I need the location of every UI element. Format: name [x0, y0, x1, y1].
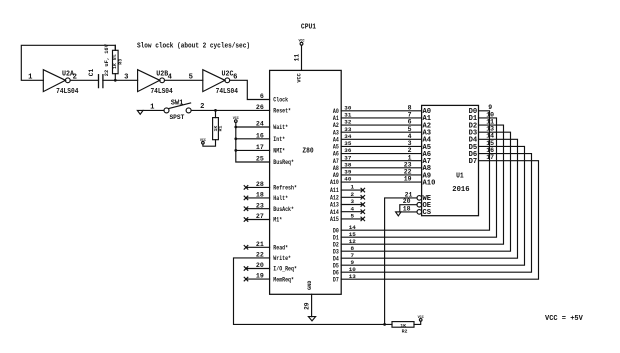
wire A6 net (Z80 pin 36 to 2016 pin 2)	[341, 153, 421, 155]
inverter U2B	[138, 70, 160, 92]
svg-text:A8: A8	[333, 165, 339, 172]
resistor R2	[392, 322, 414, 328]
svg-text:R2: R2	[402, 328, 408, 334]
svg-text:D6: D6	[333, 269, 339, 276]
svg-text:CS: CS	[423, 209, 432, 217]
svg-text:D5: D5	[333, 262, 339, 269]
svg-text:9: 9	[351, 259, 355, 266]
wire D0 net (2016 pin 9 to Z80 pin 14)	[341, 111, 489, 230]
wire A1 net (Z80 pin 31 to 2016 pin 7)	[341, 117, 421, 119]
svg-text:Int*: Int*	[273, 136, 285, 143]
wire D1 net (2016 pin 10 to Z80 pin 15)	[341, 118, 496, 237]
svg-text:14: 14	[349, 224, 357, 231]
wire A9 net (Z80 pin 39 to 2016 pin 22)	[341, 174, 421, 176]
svg-text:10: 10	[486, 111, 494, 118]
svg-text:A9: A9	[333, 172, 339, 179]
svg-text:14: 14	[486, 133, 494, 140]
svg-text:U2C: U2C	[222, 71, 234, 79]
svg-text:A0: A0	[333, 108, 339, 115]
svg-text:A10: A10	[330, 179, 339, 186]
power VCC (R2)	[414, 321, 421, 324]
wire A10 net (Z80 pin 40 to 2016 pin 19)	[341, 181, 421, 183]
svg-text:5: 5	[351, 213, 355, 220]
svg-text:VCC: VCC	[418, 316, 424, 320]
wire write net	[234, 258, 393, 325]
svg-text:2016: 2016	[452, 186, 469, 194]
svg-text:D2: D2	[333, 241, 339, 248]
svg-text:1: 1	[351, 184, 355, 191]
svg-text:SPST: SPST	[169, 114, 184, 121]
svg-text:VCC = +5V: VCC = +5V	[545, 315, 584, 323]
wire feedback loop	[21, 45, 115, 80]
svg-text:8: 8	[351, 245, 355, 252]
svg-text:74LS04: 74LS04	[150, 88, 172, 96]
wire D3 net (2016 pin 13 to Z80 pin 8)	[341, 132, 510, 251]
svg-text:VCC: VCC	[297, 73, 303, 82]
resistor R1	[215, 110, 217, 117]
svg-text:16: 16	[486, 147, 494, 154]
svg-text:31: 31	[344, 112, 352, 119]
svg-text:D7: D7	[333, 276, 339, 283]
svg-text:D1: D1	[333, 234, 339, 241]
svg-text:39: 39	[344, 169, 352, 176]
wire gnd to SW1	[143, 109, 164, 111]
svg-text:A12: A12	[330, 194, 339, 201]
svg-text:33: 33	[344, 126, 352, 133]
svg-text:A13: A13	[330, 202, 339, 209]
svg-text:40: 40	[344, 176, 352, 183]
svg-text:I/O_Req*: I/O_Req*	[273, 266, 297, 273]
svg-text:25: 25	[256, 156, 264, 163]
svg-text:D4: D4	[333, 255, 339, 262]
svg-text:Halt*: Halt*	[273, 195, 288, 202]
svg-text:Clock: Clock	[273, 97, 288, 104]
Z80 pin 5 A15 (NC)	[341, 218, 363, 220]
svg-text:16: 16	[256, 132, 264, 139]
svg-text:Write*: Write*	[273, 255, 291, 262]
svg-text:24: 24	[256, 121, 264, 128]
svg-text:9: 9	[488, 104, 492, 111]
svg-text:26: 26	[256, 104, 264, 111]
2016 pin 21 WE	[417, 196, 422, 201]
wire reset net	[191, 109, 270, 111]
svg-text:Slow clock (about 2 cycles/sec: Slow clock (about 2 cycles/sec)	[137, 43, 250, 51]
svg-text:23: 23	[404, 161, 412, 168]
power VCC (inputs)	[235, 120, 238, 123]
wire D7 net (2016 pin 17 to Z80 pin 13)	[341, 161, 538, 279]
Z80 pin 1 A11 (NC)	[341, 189, 363, 191]
wire D5 net (2016 pin 15 to Z80 pin 9)	[341, 146, 524, 265]
wire U2B to U2C	[165, 79, 203, 81]
wire D2 net (2016 pin 11 to Z80 pin 12)	[341, 125, 503, 244]
power VCC (CPU1 pin 11)	[301, 45, 303, 70]
svg-text:30: 30	[344, 104, 352, 111]
svg-text:1: 1	[28, 74, 33, 82]
svg-text:7: 7	[408, 112, 412, 119]
svg-text:4: 4	[408, 133, 412, 140]
svg-text:VCC: VCC	[298, 40, 304, 44]
Z80 pin 4 A14 (NC)	[341, 211, 363, 213]
svg-text:D7: D7	[469, 158, 478, 166]
svg-text:74LS04: 74LS04	[56, 88, 78, 96]
svg-text:35: 35	[344, 140, 352, 147]
svg-text:5: 5	[408, 126, 412, 133]
wire D4 net (2016 pin 14 to Z80 pin 7)	[341, 139, 517, 258]
svg-text:3: 3	[351, 198, 355, 205]
junction WE/write	[383, 323, 386, 326]
svg-text:Z80: Z80	[302, 147, 313, 155]
svg-text:Wait*: Wait*	[273, 124, 288, 131]
inverter U2A	[43, 70, 65, 92]
2016 pin 20 OE	[417, 202, 422, 207]
svg-text:38: 38	[344, 161, 352, 168]
svg-text:A10: A10	[423, 179, 436, 187]
svg-text:NMI*: NMI*	[273, 148, 285, 155]
svg-text:U1: U1	[456, 172, 464, 180]
svg-text:4: 4	[351, 205, 355, 212]
cpu CPU1 Z80 body	[270, 70, 342, 294]
wire C1 to U2B	[103, 79, 138, 81]
svg-text:34: 34	[344, 133, 352, 140]
svg-text:D0: D0	[333, 227, 339, 234]
svg-text:32: 32	[344, 119, 352, 126]
svg-text:13: 13	[349, 273, 357, 280]
wire A4 net (Z80 pin 34 to 2016 pin 4)	[341, 138, 421, 140]
svg-text:A7: A7	[333, 158, 339, 165]
svg-text:A6: A6	[333, 151, 339, 158]
ground (2016 OE/CS)	[396, 212, 401, 216]
power VCC (R1)	[202, 142, 205, 145]
svg-text:BusReq*: BusReq*	[273, 159, 294, 166]
svg-text:6: 6	[408, 119, 412, 126]
ram U1 2016 body	[422, 105, 479, 215]
svg-text:1: 1	[408, 154, 412, 161]
resistor R3	[114, 45, 116, 50]
svg-text:A11: A11	[330, 187, 339, 194]
wire A2 net (Z80 pin 32 to 2016 pin 6)	[341, 124, 421, 126]
svg-text:8: 8	[408, 104, 412, 111]
svg-text:22: 22	[404, 169, 412, 176]
Z80 pin 3 A13 (NC)	[341, 204, 363, 206]
junction reset/R1	[214, 109, 217, 112]
svg-text:A3: A3	[333, 129, 339, 136]
svg-text:2: 2	[351, 191, 355, 198]
svg-text:19: 19	[404, 176, 412, 183]
svg-text:M1*: M1*	[273, 217, 282, 224]
svg-text:74LS04: 74LS04	[216, 88, 238, 96]
svg-text:11: 11	[486, 118, 494, 125]
svg-text:15: 15	[486, 140, 494, 147]
svg-text:CPU1: CPU1	[301, 23, 316, 31]
wire tied-high inputs	[236, 122, 270, 162]
svg-text:22 uF, 16V: 22 uF, 16V	[104, 43, 110, 76]
ground (CPU1 pin 29)	[311, 294, 313, 316]
inverter U2C	[203, 70, 225, 92]
2016 pin 18 CS	[417, 210, 422, 215]
svg-text:1K 5%: 1K 5%	[112, 54, 118, 69]
svg-text:Read*: Read*	[273, 245, 288, 252]
ground (switch)	[137, 110, 143, 114]
svg-text:5: 5	[189, 74, 193, 82]
svg-text:2: 2	[408, 147, 412, 154]
wire A5 net (Z80 pin 35 to 2016 pin 3)	[341, 145, 421, 147]
wire clock net	[230, 80, 270, 99]
svg-text:17: 17	[256, 144, 264, 151]
wire U2A out	[70, 79, 98, 81]
svg-text:29: 29	[304, 302, 311, 310]
svg-text:VCC: VCC	[233, 117, 239, 121]
wire A8 net (Z80 pin 38 to 2016 pin 23)	[341, 167, 421, 169]
svg-text:3: 3	[408, 140, 412, 147]
switch SW1	[164, 108, 169, 113]
svg-text:6: 6	[260, 93, 264, 100]
svg-text:A5: A5	[333, 144, 339, 151]
svg-text:15: 15	[349, 231, 357, 238]
svg-text:36: 36	[344, 147, 352, 154]
svg-text:SW1: SW1	[171, 99, 184, 107]
wire A3 net (Z80 pin 33 to 2016 pin 5)	[341, 131, 421, 133]
svg-text:7: 7	[351, 252, 355, 259]
svg-text:C1: C1	[88, 69, 95, 77]
Z80 pin 2 A12 (NC)	[341, 196, 363, 198]
svg-text:GND: GND	[307, 281, 313, 290]
svg-text:A15: A15	[330, 216, 339, 223]
svg-text:Reset*: Reset*	[273, 108, 291, 115]
svg-text:R1: R1	[218, 126, 224, 132]
svg-text:A4: A4	[333, 136, 339, 143]
svg-text:BusAck*: BusAck*	[273, 206, 294, 213]
capacitor C1	[98, 75, 100, 88]
wire A7 net (Z80 pin 37 to 2016 pin 1)	[341, 160, 421, 162]
svg-text:R3: R3	[117, 59, 123, 65]
svg-text:A2: A2	[333, 122, 339, 129]
svg-text:A1: A1	[333, 115, 339, 122]
svg-text:Refresh*: Refresh*	[273, 185, 297, 192]
svg-text:13: 13	[486, 126, 494, 133]
svg-text:MemReq*: MemReq*	[273, 276, 294, 283]
svg-text:10: 10	[349, 266, 357, 273]
svg-text:A14: A14	[330, 209, 339, 216]
svg-text:11: 11	[293, 54, 300, 62]
svg-text:37: 37	[344, 154, 352, 161]
svg-text:1: 1	[150, 103, 155, 111]
svg-text:3: 3	[124, 74, 128, 82]
wire A0 net (Z80 pin 30 to 2016 pin 8)	[341, 110, 421, 112]
svg-text:12: 12	[349, 238, 357, 245]
svg-text:VCC: VCC	[200, 139, 206, 143]
svg-text:D3: D3	[333, 248, 339, 255]
node 3 junction	[114, 79, 117, 82]
wire D6 net (2016 pin 16 to Z80 pin 10)	[341, 154, 531, 273]
svg-text:1K: 1K	[400, 323, 406, 329]
svg-text:17: 17	[486, 154, 494, 161]
